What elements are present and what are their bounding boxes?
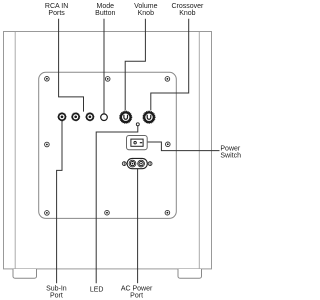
- svg-text:Sub-In: Sub-In: [46, 285, 67, 292]
- RCA port 3: [86, 113, 94, 121]
- callout line Volume Knob: [125, 19, 145, 111]
- screw top-right: [165, 77, 170, 82]
- svg-text:AC Power: AC Power: [121, 285, 153, 292]
- callout line LED: [96, 126, 138, 283]
- mode button: [101, 114, 108, 121]
- left foot: [13, 269, 37, 278]
- recessed back panel: [39, 72, 177, 218]
- RCA port 1 (sub-in): [58, 113, 66, 121]
- label Crossover Knob: [171, 3, 204, 17]
- callout line Mode Button: [103, 19, 105, 114]
- svg-text:Switch: Switch: [220, 153, 241, 160]
- callout line Power Switch: [147, 142, 219, 151]
- svg-text:Power: Power: [220, 146, 241, 153]
- callout line Crossover Knob: [151, 19, 189, 111]
- LED: [136, 123, 139, 126]
- cabinet outer box: [4, 32, 212, 269]
- right foot: [178, 269, 202, 278]
- svg-text:Mode: Mode: [97, 3, 115, 10]
- svg-text:Ports: Ports: [48, 10, 65, 17]
- svg-text:Button: Button: [95, 10, 115, 17]
- screw mid-left: [45, 142, 50, 147]
- label Volume Knob: [134, 3, 157, 17]
- callout line RCA IN Ports: [59, 19, 84, 112]
- cabinet left inner edge: [14, 32, 16, 269]
- screw bottom-left: [45, 211, 50, 216]
- svg-text:Port: Port: [50, 292, 63, 299]
- screw top-left: [45, 77, 50, 82]
- AC power inlet: [122, 158, 152, 168]
- svg-text:Knob: Knob: [179, 10, 195, 17]
- label Sub-In Port: [46, 285, 67, 299]
- crossover knob: [143, 111, 155, 123]
- svg-text:RCA IN: RCA IN: [45, 3, 68, 10]
- screw bottom-middle: [105, 210, 110, 215]
- label Mode Button: [95, 3, 115, 17]
- screw top-middle: [105, 77, 110, 82]
- volume knob: [120, 111, 132, 123]
- cabinet right inner edge: [198, 32, 200, 269]
- label AC Power Port: [121, 285, 153, 299]
- RCA port 2: [72, 113, 80, 121]
- svg-text:Crossover: Crossover: [171, 3, 204, 10]
- svg-text:Volume: Volume: [134, 3, 157, 10]
- callout line AC Power Port: [137, 169, 139, 283]
- callout line Sub-In Port: [57, 121, 62, 284]
- label Power Switch: [220, 146, 241, 160]
- svg-text:LED: LED: [90, 286, 104, 293]
- screw mid-right: [166, 142, 171, 147]
- screw bottom-right: [165, 210, 170, 215]
- svg-text:Port: Port: [130, 292, 143, 299]
- label RCA IN Ports: [45, 3, 68, 17]
- power switch: [127, 136, 148, 150]
- label LED: [90, 286, 104, 293]
- svg-text:Knob: Knob: [138, 10, 154, 17]
